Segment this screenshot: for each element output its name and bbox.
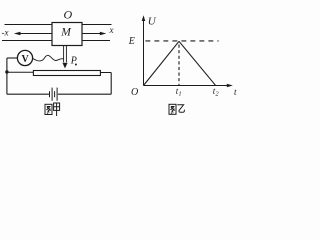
svg-text:O: O: [64, 7, 73, 21]
signal falling edge: [179, 41, 216, 85]
svg-text:M: M: [60, 27, 72, 39]
caption 图乙: [169, 104, 185, 114]
svg-text:U: U: [148, 15, 157, 27]
battery cells: [50, 88, 58, 101]
dashed level E: [145, 40, 218, 42]
svg-text:x: x: [109, 25, 114, 35]
dashed vertical t1: [178, 45, 180, 86]
char TU (figure): [45, 104, 52, 114]
junction node dot: [5, 70, 8, 73]
wire junction to rheostat: [7, 71, 34, 73]
caption 图甲: [45, 103, 60, 116]
t axis: [144, 85, 229, 87]
char TU (figure): [169, 104, 176, 114]
wire rail top-left: [5, 24, 53, 26]
U axis: [143, 20, 145, 86]
wire rail bottom-left: [2, 40, 52, 42]
axis arrow -x: [14, 32, 52, 36]
wire rail bottom-right: [82, 40, 110, 42]
svg-text:P: P: [70, 55, 77, 66]
slider stem (double line): [64, 46, 67, 63]
wire right vertical bus: [110, 73, 112, 95]
flexible wire voltmeter to slider: [33, 55, 64, 61]
voltmeter V: [17, 50, 32, 65]
wire rail top-right: [82, 24, 112, 26]
signal rising edge: [144, 41, 180, 85]
wire voltmeter-left to left bus: [7, 57, 18, 59]
contact dot near P: [75, 64, 77, 66]
wire bottom left segment: [7, 93, 49, 95]
slider arrowhead P: [62, 63, 67, 69]
svg-text:-x: -x: [2, 28, 9, 38]
svg-text:V: V: [22, 54, 30, 65]
wire rheostat right to right bus: [100, 72, 111, 74]
rheostat body R: [33, 71, 100, 76]
char JIA: [54, 103, 60, 110]
svg-text:E: E: [128, 36, 135, 47]
wire bottom right segment: [58, 93, 111, 95]
char YI (second): [177, 105, 184, 112]
axis arrow x: [82, 32, 106, 36]
wire left vertical bus: [6, 58, 8, 94]
svg-text:O: O: [131, 87, 138, 98]
block M: [52, 23, 82, 46]
